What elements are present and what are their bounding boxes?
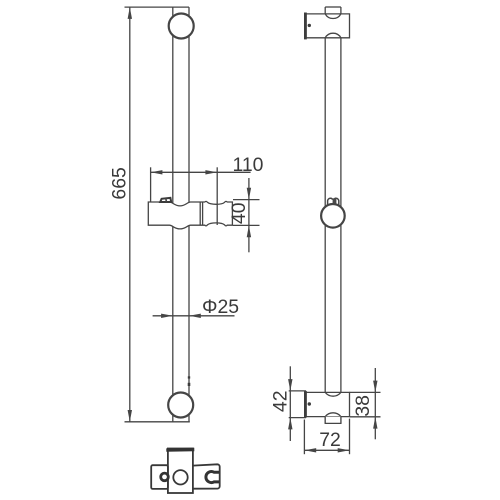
slider clamp knob (left view) <box>160 198 171 202</box>
dimension 72 line, arrows, extension lines <box>304 449 349 451</box>
slider body + holder outline (left view) <box>148 201 232 229</box>
svg-text:665: 665 <box>109 167 131 199</box>
top bracket tube tab top cap <box>325 6 341 8</box>
slider clamp (right view) above circle <box>328 198 339 206</box>
top extension line + rail top cap <box>125 6 190 8</box>
bottom detail view: big C clip in right wing <box>206 472 219 483</box>
svg-text:40: 40 <box>228 202 250 224</box>
dimension 40 extension lines, line with outside arrows <box>233 199 260 201</box>
top bracket screw dot <box>308 24 311 27</box>
dimension 665 line with arrows <box>129 7 131 422</box>
bottom extension line + rail bottom baseline <box>125 421 190 423</box>
svg-text:72: 72 <box>319 429 341 451</box>
top wall-mount circle (left view) <box>169 14 194 39</box>
left view tube (front view rail) <box>173 7 189 422</box>
bottom bracket rectangle (right view) <box>306 392 350 416</box>
bottom wall-mount circle (left view) <box>168 393 193 418</box>
bottom detail view: right wing <box>193 464 220 488</box>
top bracket rectangle (right view) <box>306 14 350 38</box>
dimension 42 line, arrows, extension lines <box>289 366 291 441</box>
svg-text:38: 38 <box>352 395 374 417</box>
top bracket dome arc above bottom edge <box>325 33 341 38</box>
svg-text:110: 110 <box>233 154 264 176</box>
slider knob circle (right view) <box>321 204 345 228</box>
bottom bracket screw dot <box>308 402 311 405</box>
svg-text:42: 42 <box>269 391 291 413</box>
right view tube (side view rail) <box>325 7 341 423</box>
small artifact ticks on right tube line <box>188 376 190 378</box>
dimension 110 line with arrows and extension lines <box>151 171 251 173</box>
bottom bracket bowl arc under top edge <box>325 392 341 396</box>
bottom bracket tube end tab <box>325 417 341 424</box>
dimension phi25 leader with arrows <box>153 315 235 317</box>
bottom bracket dome arc above bottom edge <box>325 413 341 417</box>
bottom detail view: central circle <box>173 470 187 484</box>
bottom detail view: top cap bar <box>166 448 194 452</box>
bottom detail view: central body rect <box>168 449 193 494</box>
bottom bracket wall plate <box>304 391 307 418</box>
slider/holder joint double line <box>199 202 201 225</box>
top bracket wall plate <box>304 13 307 40</box>
top bracket bowl arc under top edge <box>325 14 341 19</box>
bottom detail view: left wing <box>151 465 168 489</box>
svg-text:Φ25: Φ25 <box>202 296 239 318</box>
dimension 38 line, arrows, extension lines <box>374 368 376 439</box>
bottom detail view: small c ring in left wing <box>161 473 169 481</box>
